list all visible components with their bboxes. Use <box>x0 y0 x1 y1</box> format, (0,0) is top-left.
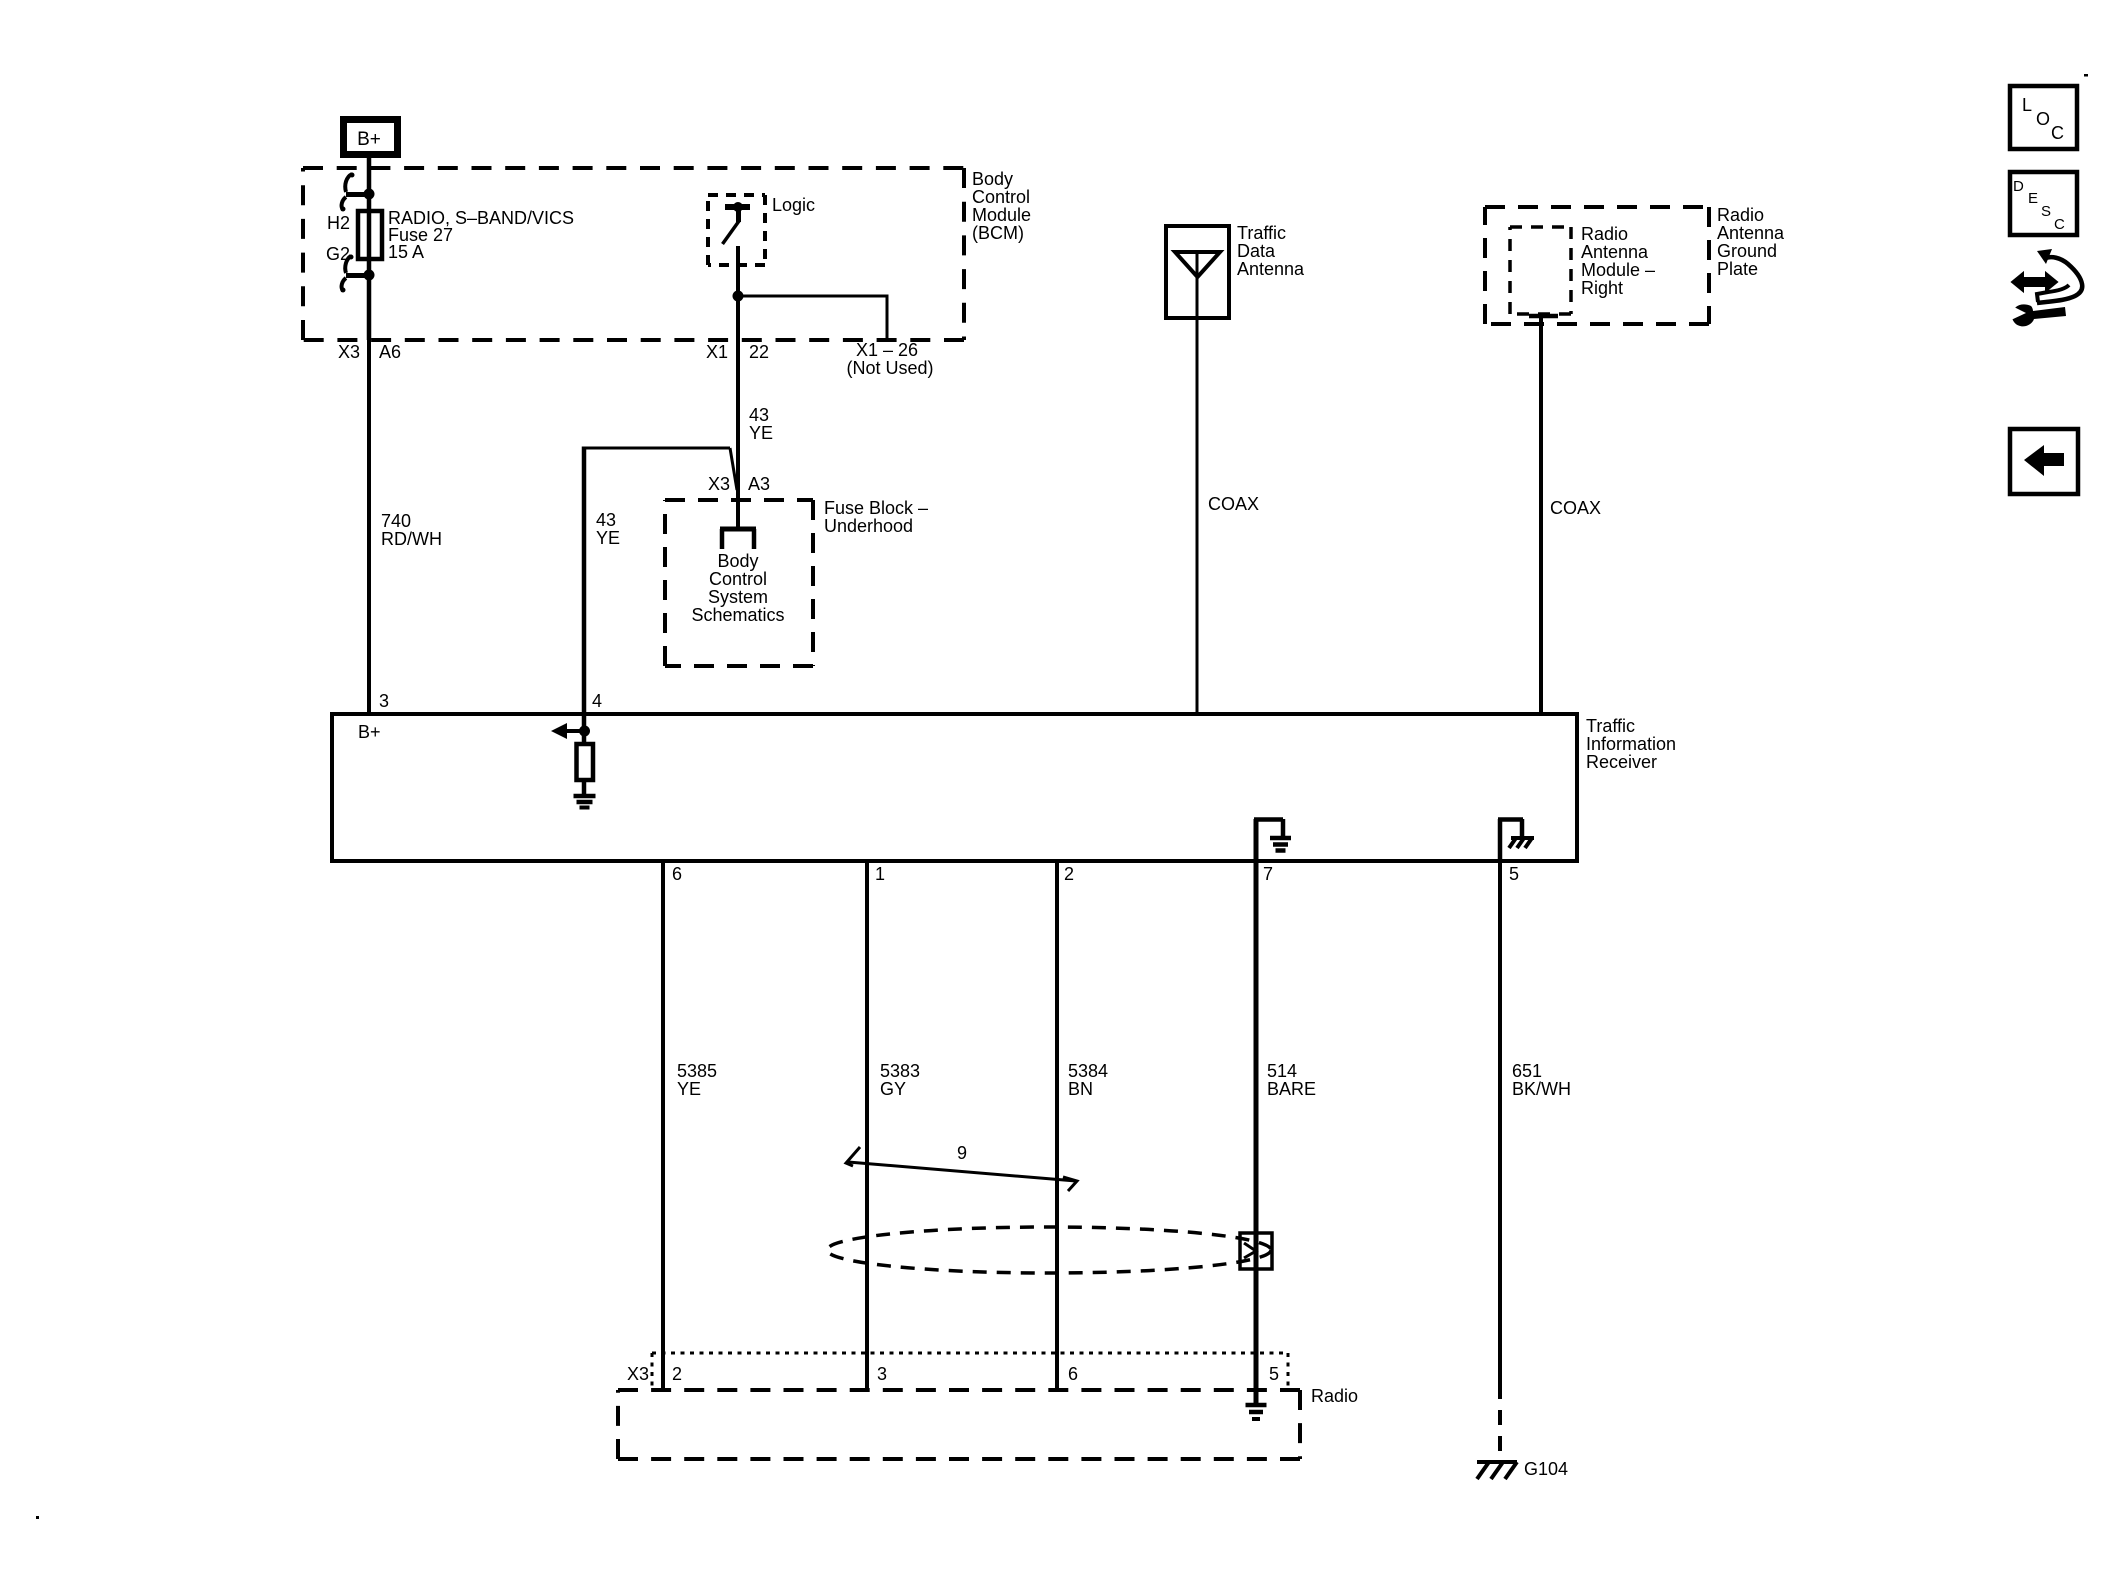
svg-text:YE: YE <box>596 528 620 548</box>
icon jump arrows with wrench <box>2010 249 2082 326</box>
label Body Control System Schematics <box>691 551 784 625</box>
connector clip lower on fuse wire <box>341 255 375 293</box>
svg-text:651: 651 <box>1512 1061 1542 1081</box>
svg-text:Ground: Ground <box>1717 241 1777 261</box>
svg-text:Receiver: Receiver <box>1586 752 1657 772</box>
svg-text:Body: Body <box>717 551 758 571</box>
svg-text:5383: 5383 <box>880 1061 920 1081</box>
svg-text:43: 43 <box>596 510 616 530</box>
svg-text:Body: Body <box>972 169 1013 189</box>
svg-text:RD/WH: RD/WH <box>381 529 442 549</box>
icon back arrow box <box>2010 429 2078 494</box>
svg-text:Radio: Radio <box>1581 224 1628 244</box>
pin label X1 - 26 (Not Used) <box>846 340 933 378</box>
wire 651 dashed segment to G104 <box>1498 1410 1502 1425</box>
Radio dashed box <box>618 1390 1300 1459</box>
svg-text:BK/WH: BK/WH <box>1512 1079 1571 1099</box>
wire coax left (antenna to receiver) <box>1196 254 1199 714</box>
svg-text:G2: G2 <box>326 244 350 264</box>
svg-text:5384: 5384 <box>1068 1061 1108 1081</box>
shield drain box on 514 wire <box>1240 1233 1272 1269</box>
svg-text:2: 2 <box>672 1364 682 1384</box>
svg-text:Logic: Logic <box>772 195 815 215</box>
svg-text:X3: X3 <box>338 342 360 362</box>
wire branch to X1-26 <box>738 295 887 339</box>
svg-text:COAX: COAX <box>1550 498 1601 518</box>
svg-text:O: O <box>2036 109 2050 129</box>
svg-text:YE: YE <box>677 1079 701 1099</box>
svg-text:Antenna: Antenna <box>1581 242 1649 262</box>
pin label X1 22 <box>706 342 769 362</box>
connector fork symbol <box>720 529 756 549</box>
callout 9 twisted pair leader <box>846 1143 1077 1191</box>
svg-text:Underhood: Underhood <box>824 516 913 536</box>
label Body Control Module (BCM) <box>972 169 1031 243</box>
wire coax right (module to receiver) <box>1539 316 1543 714</box>
svg-text:43: 43 <box>749 405 769 425</box>
svg-text:9: 9 <box>957 1143 967 1163</box>
Traffic Information Receiver box <box>332 714 1577 861</box>
wire label 514 BARE <box>1267 1061 1316 1099</box>
svg-text:BARE: BARE <box>1267 1079 1316 1099</box>
svg-text:7: 7 <box>1263 864 1273 884</box>
svg-text:15 A: 15 A <box>388 242 424 262</box>
svg-text:Antenna: Antenna <box>1237 259 1305 279</box>
label X3 A6 <box>338 342 401 362</box>
internal ground hook at pin 7 <box>1254 819 1291 861</box>
svg-text:5: 5 <box>1509 864 1519 884</box>
svg-text:A3: A3 <box>748 474 770 494</box>
label Traffic Data Antenna <box>1237 223 1305 279</box>
svg-text:Control: Control <box>972 187 1030 207</box>
svg-text:6: 6 <box>672 864 682 884</box>
svg-text:GY: GY <box>880 1079 906 1099</box>
svg-text:Plate: Plate <box>1717 259 1758 279</box>
svg-text:X1: X1 <box>706 342 728 362</box>
svg-text:(Not Used): (Not Used) <box>846 358 933 378</box>
Body Control Module (BCM) dashed box <box>303 168 964 340</box>
wire logic switch down to fuse block fork <box>736 246 740 529</box>
switch symbol inside logic box <box>723 202 751 244</box>
logic switch dashed box <box>708 195 765 265</box>
svg-text:Module –: Module – <box>1581 260 1655 280</box>
svg-text:3: 3 <box>877 1364 887 1384</box>
antenna module terminal bar <box>1529 314 1558 319</box>
wire 740 RD/WH BCM to receiver pin 3 <box>367 340 371 714</box>
wire 5384 BN (pin 2 to radio pin 6) <box>1055 861 1059 1390</box>
wire label 5384 BN <box>1068 1061 1108 1099</box>
svg-text:C: C <box>2051 123 2064 143</box>
tiny mark bottom left <box>36 1516 39 1519</box>
svg-text:YE: YE <box>749 423 773 443</box>
svg-text:A6: A6 <box>379 342 401 362</box>
svg-text:X1 – 26: X1 – 26 <box>856 340 918 360</box>
svg-text:B+: B+ <box>358 722 381 742</box>
svg-text:Radio: Radio <box>1717 205 1764 225</box>
wire B+ through fuse to BCM bottom <box>367 158 372 340</box>
svg-text:S: S <box>2041 203 2051 220</box>
svg-text:1: 1 <box>875 864 885 884</box>
svg-text:5: 5 <box>1269 1364 1279 1384</box>
svg-text:Antenna: Antenna <box>1717 223 1785 243</box>
svg-text:2: 2 <box>1064 864 1074 884</box>
svg-text:C: C <box>2054 216 2065 233</box>
svg-text:G104: G104 <box>1524 1459 1568 1479</box>
node B+ (battery feed box) <box>344 120 398 155</box>
svg-text:Radio: Radio <box>1311 1386 1358 1406</box>
connector clip upper on fuse wire <box>341 173 375 212</box>
svg-text:514: 514 <box>1267 1061 1297 1081</box>
wire 514 BARE (pin 7 to radio ground) <box>1254 861 1259 1404</box>
junction dot on 43 YE wire <box>733 291 744 302</box>
fuse value label <box>388 208 574 262</box>
svg-text:Traffic: Traffic <box>1237 223 1286 243</box>
internal pulldown: arrow, resistor, ground at pin 4 <box>551 723 596 808</box>
ground G104 chassis symbol <box>1477 1462 1517 1479</box>
twisted pair ellipse <box>827 1227 1271 1273</box>
fuse F27 (RADIO, S-BAND/VICS Fuse 27 15 A) <box>358 211 382 259</box>
pin labels 6 1 2 7 5 below receiver <box>672 864 1519 884</box>
wire label 5383 GY <box>880 1061 920 1099</box>
svg-text:L: L <box>2022 95 2032 115</box>
svg-text:X3: X3 <box>627 1364 649 1384</box>
svg-text:Traffic: Traffic <box>1586 716 1635 736</box>
wire 5385 YE (pin 6 to radio pin 2) <box>661 861 665 1390</box>
wire label 43 YE (lower) <box>596 510 620 548</box>
svg-text:System: System <box>708 587 768 607</box>
label Radio Antenna Module - Right <box>1581 224 1655 298</box>
svg-text:Module: Module <box>972 205 1031 225</box>
tiny mark top right <box>2084 74 2088 77</box>
svg-text:740: 740 <box>381 511 411 531</box>
svg-text:Schematics: Schematics <box>691 605 784 625</box>
icon DESC box <box>2010 172 2077 235</box>
wire 651 BK/WH (pin 5 to G104) solid part <box>1498 861 1502 1399</box>
Radio Antenna Module - Right outer dashed box <box>1485 207 1709 324</box>
ground symbol for 514 BARE inside radio <box>1246 1405 1267 1419</box>
svg-text:6: 6 <box>1068 1364 1078 1384</box>
label Radio Antenna Ground Plate <box>1717 205 1785 279</box>
svg-text:22: 22 <box>749 342 769 362</box>
svg-text:COAX: COAX <box>1208 494 1259 514</box>
radio connector X3 dotted row <box>652 1353 1288 1389</box>
pin label X3 A3 <box>708 474 770 494</box>
wire 43 YE jog to receiver pin 4 <box>584 447 737 732</box>
svg-text:X3: X3 <box>708 474 730 494</box>
svg-text:(BCM): (BCM) <box>972 223 1024 243</box>
svg-text:Control: Control <box>709 569 767 589</box>
icon LOC box <box>2010 86 2077 149</box>
svg-text:4: 4 <box>592 691 602 711</box>
svg-text:E: E <box>2028 190 2038 207</box>
Radio Antenna Module inner dashed box <box>1510 227 1571 314</box>
svg-text:B+: B+ <box>357 129 381 150</box>
svg-text:Data: Data <box>1237 241 1276 261</box>
svg-text:H2: H2 <box>327 213 350 233</box>
svg-text:BN: BN <box>1068 1079 1093 1099</box>
wire 5383 GY (pin 1 to radio pin 3) <box>865 861 869 1390</box>
label Traffic Information Receiver <box>1586 716 1676 772</box>
svg-text:Information: Information <box>1586 734 1676 754</box>
wire label 740 RD/WH <box>381 511 442 549</box>
internal chassis ground hook at pin 5 <box>1498 819 1534 861</box>
svg-text:Fuse Block –: Fuse Block – <box>824 498 928 518</box>
svg-text:3: 3 <box>379 691 389 711</box>
svg-text:D: D <box>2013 178 2024 195</box>
wire label 651 BK/WH <box>1512 1061 1571 1099</box>
svg-text:Right: Right <box>1581 278 1623 298</box>
svg-text:5385: 5385 <box>677 1061 717 1081</box>
label Fuse Block - Underhood <box>824 498 928 536</box>
wire label 43 YE (upper) <box>749 405 773 443</box>
Traffic Data Antenna box <box>1166 226 1229 318</box>
wire label 5385 YE <box>677 1061 717 1099</box>
Fuse Block - Underhood dashed box <box>665 500 813 666</box>
